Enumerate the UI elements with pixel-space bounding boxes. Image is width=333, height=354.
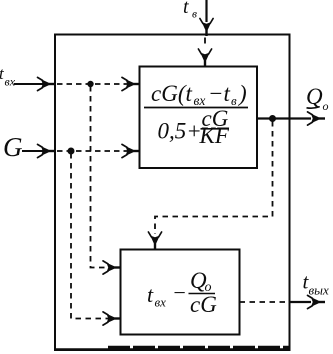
svg-text:o: o xyxy=(323,99,329,113)
svg-text:Q: Q xyxy=(306,84,323,109)
svg-text:в: в xyxy=(231,93,237,108)
svg-text:вх: вх xyxy=(155,295,167,310)
svg-text:cG: cG xyxy=(190,292,217,317)
svg-text:cG(t: cG(t xyxy=(151,81,192,106)
svg-text:в: в xyxy=(192,9,197,21)
svg-text:t: t xyxy=(147,282,154,307)
svg-text:KF: KF xyxy=(199,123,230,148)
svg-text:G: G xyxy=(3,132,23,162)
svg-text:0,5+: 0,5+ xyxy=(158,118,202,143)
svg-text:вх: вх xyxy=(5,75,16,89)
svg-text:−t: −t xyxy=(208,81,231,106)
svg-text:вых: вых xyxy=(309,283,329,298)
svg-text:−: − xyxy=(172,280,187,305)
svg-text:): ) xyxy=(237,81,247,106)
svg-text:t: t xyxy=(183,0,189,18)
